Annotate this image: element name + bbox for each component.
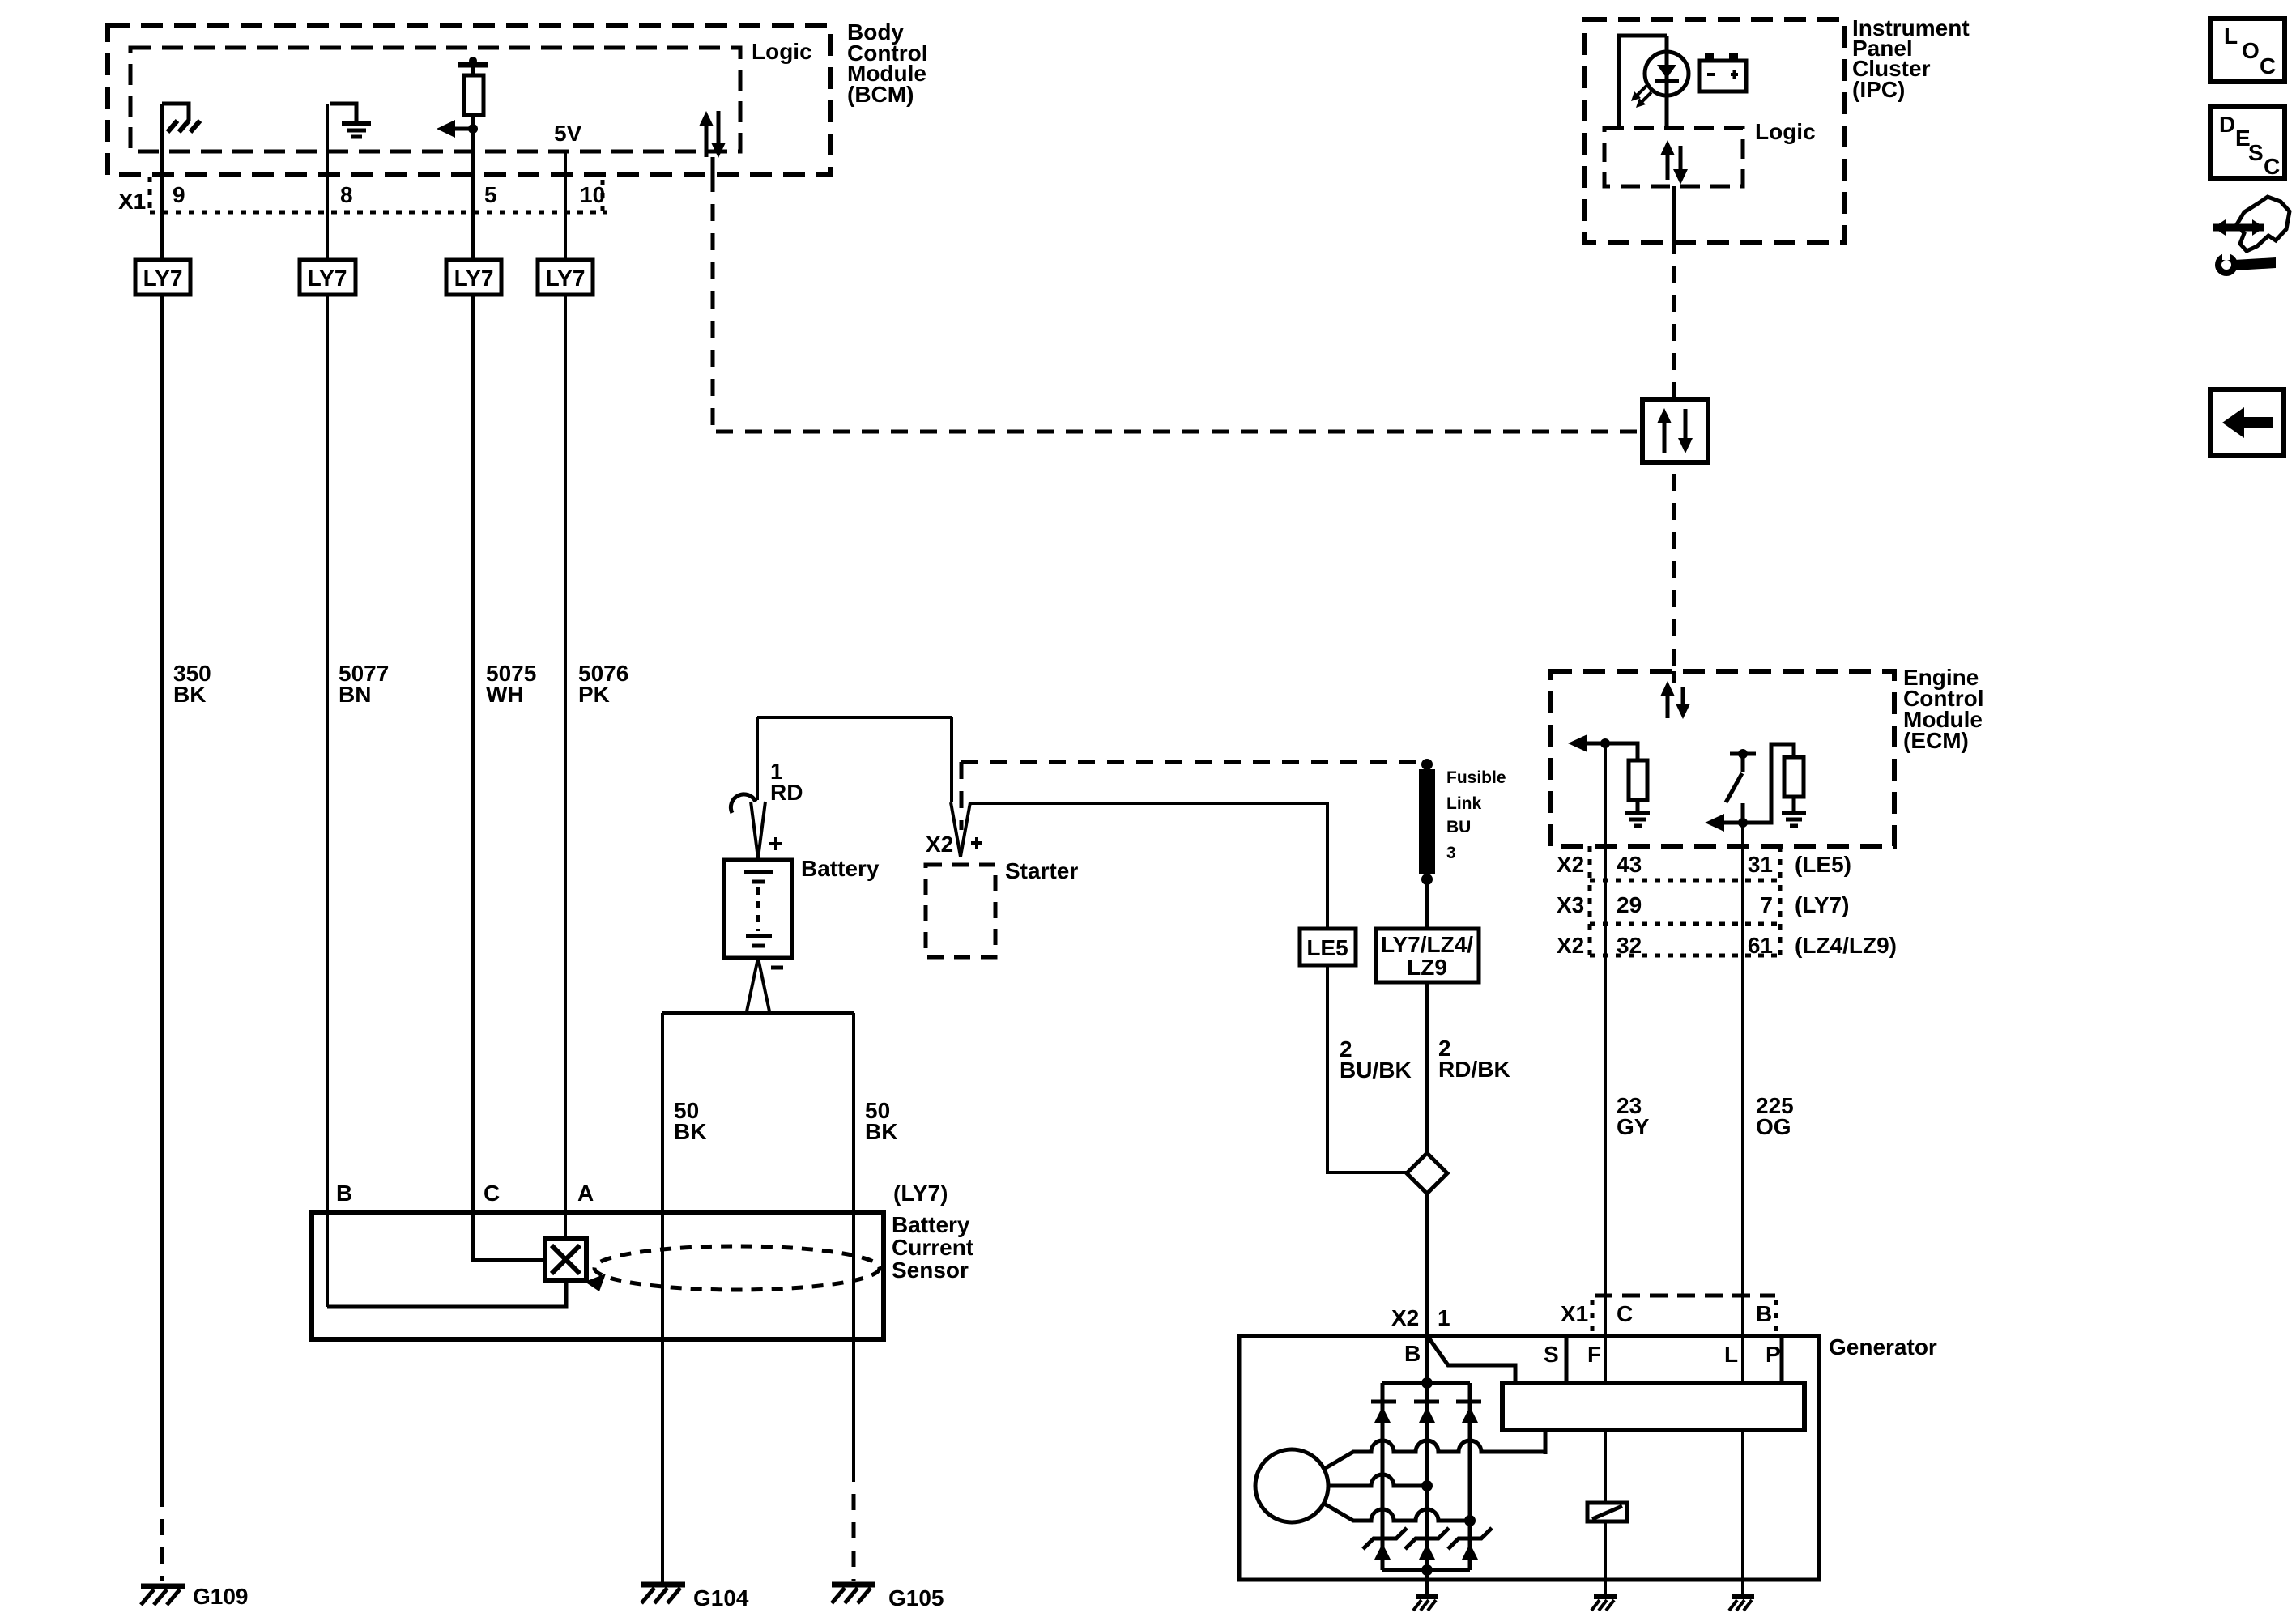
svg-text:(LZ4/LZ9): (LZ4/LZ9): [1795, 933, 1897, 958]
rectifier bridge left vertical: [1381, 1383, 1385, 1570]
node dot ECM command: [1738, 818, 1748, 828]
label BCM: [847, 19, 928, 107]
ground generator L: [1729, 1597, 1754, 1611]
svg-text:29: 29: [1617, 892, 1642, 917]
data arrows up-down inside BCM: [699, 111, 726, 158]
wire generator B to ground: [1425, 1570, 1429, 1597]
battery positive crimp taper: [751, 802, 765, 858]
ground earth ECM left: [1625, 813, 1650, 826]
wire LED loop: [1619, 36, 1667, 128]
svg-text:Sensor: Sensor: [892, 1257, 969, 1283]
battery telltale icon: [1699, 53, 1746, 91]
label IPC: [1852, 15, 1970, 102]
svg-text:C: C: [2264, 154, 2280, 179]
generator box: [1239, 1336, 1819, 1580]
svg-text:X3: X3: [1557, 892, 1584, 917]
label 2 BU/BK: [1340, 1036, 1412, 1083]
regulator leg to stator: [1544, 1430, 1548, 1454]
svg-text:X2: X2: [1557, 852, 1584, 877]
svg-text:1: 1: [1438, 1305, 1450, 1330]
starter crimp taper: [951, 802, 970, 857]
svg-text:Battery: Battery: [892, 1212, 970, 1237]
battery clamp hook: [731, 794, 756, 813]
battery negative crimp taper: [747, 958, 769, 1011]
svg-text:Fusible: Fusible: [1446, 768, 1506, 787]
svg-text:43: 43: [1617, 852, 1642, 877]
node dot phase 2: [1421, 1480, 1433, 1491]
svg-text:LY7/LZ4/: LY7/LZ4/: [1381, 932, 1473, 957]
resistor inside BCM: [464, 75, 483, 115]
plus sign starter: [971, 837, 982, 849]
wire diamond to generator B: [1425, 1194, 1429, 1336]
plus sign battery: [769, 837, 782, 850]
svg-text:Link: Link: [1446, 794, 1481, 813]
generator B internal diagonal link: [1429, 1338, 1515, 1383]
svg-text:A: A: [577, 1181, 594, 1206]
wire starter to LE5 run: [969, 803, 1327, 929]
svg-text:(IPC): (IPC): [1852, 77, 1905, 102]
svg-text:(ECM): (ECM): [1903, 728, 1969, 753]
connector X1 row of BCM dotted: [150, 177, 607, 212]
wire generator F lower: [1604, 1430, 1607, 1503]
svg-text:5: 5: [484, 182, 497, 207]
svg-text:8: 8: [340, 182, 353, 207]
connector LE5 box: [1300, 929, 1356, 965]
svg-text:G104: G104: [693, 1585, 749, 1611]
wire 50 BK right dashed lower: [852, 1494, 856, 1581]
fusible link bottom dot: [1421, 874, 1433, 885]
connector LY7/LZ4/LZ9 box: [1376, 929, 1479, 982]
label wire 350 BK: [173, 661, 211, 707]
LED light arrow 2: [1636, 92, 1651, 108]
wire sensor internal B leg: [327, 1280, 566, 1307]
loop to ECM right resistor: [1743, 744, 1794, 823]
fusible link BU 3 body: [1419, 769, 1435, 874]
icon box DESC: [2210, 106, 2285, 179]
svg-text:Battery: Battery: [801, 856, 880, 881]
wire 5076 PK vertical (pin 10): [564, 151, 567, 1239]
switch blade ECM: [1726, 773, 1742, 802]
wire battery positive feed top run: [757, 716, 952, 719]
resistor ECM right: [1784, 757, 1804, 797]
wire below switch: [1741, 803, 1745, 823]
hall element box with X: [545, 1239, 586, 1280]
svg-text:P: P: [1766, 1342, 1781, 1367]
battery box: [724, 860, 792, 958]
svg-text:X2: X2: [1391, 1305, 1419, 1330]
stator winding phase 3: [1324, 1504, 1470, 1521]
wire serial data dashed horizontal to IPC node: [716, 430, 1642, 434]
resistor ECM left: [1629, 760, 1647, 800]
wire fusible link to engine connector: [1425, 884, 1429, 929]
svg-text:(LY7): (LY7): [1795, 892, 1849, 917]
field diode box: [1587, 1503, 1627, 1521]
ECM connector rows dotted grid: [1590, 846, 1780, 955]
lead right resistor to ground: [1792, 797, 1796, 811]
ground G109: [141, 1586, 185, 1605]
wire LED vertical: [1665, 36, 1669, 128]
svg-text:L: L: [2224, 23, 2238, 49]
data arrows up-down inside ECM: [1660, 681, 1690, 719]
wire IPC data stub: [1672, 186, 1676, 254]
signal arrow left inside BCM: [437, 120, 473, 138]
LED indicator: [1645, 52, 1689, 96]
ground earth inside BCM (wire 8): [342, 124, 371, 137]
ground chassis inside BCM (left): [168, 121, 200, 132]
svg-text:X2: X2: [926, 832, 953, 857]
svg-text:LY7: LY7: [546, 266, 586, 291]
svg-text:Logic: Logic: [752, 39, 812, 64]
serial data node box with arrows: [1642, 399, 1708, 462]
svg-text:WH: WH: [486, 682, 524, 707]
node dot on pin 5 wire: [468, 124, 478, 134]
svg-text:F: F: [1587, 1342, 1601, 1367]
icon box back arrow: [2210, 389, 2284, 456]
label 50 BK left: [674, 1098, 706, 1144]
wire 225 OG full: [1741, 823, 1744, 1383]
svg-text:B: B: [336, 1181, 352, 1206]
wire 5075 WH vertical (pin 5): [473, 115, 543, 1260]
zener lower right: [1448, 1528, 1492, 1560]
logic box inside BCM dashed: [130, 48, 740, 151]
svg-text:RD/BK: RD/BK: [1438, 1057, 1510, 1082]
label wire 5076 PK: [578, 661, 628, 707]
label ECM: [1903, 665, 1984, 753]
svg-text:7: 7: [1760, 892, 1773, 917]
wire ECM data stub: [1672, 671, 1676, 683]
label Battery Current Sensor: [892, 1212, 973, 1283]
signal arrow left ECM sense: [1568, 734, 1605, 752]
battery current sensor box: [312, 1212, 884, 1339]
svg-text:BK: BK: [865, 1119, 897, 1144]
svg-text:PK: PK: [578, 682, 610, 707]
ground generator F: [1591, 1597, 1617, 1611]
data arrows up-down inside IPC logic: [1660, 140, 1688, 185]
diode upper mid: [1414, 1402, 1439, 1423]
wire 23 GY full: [1604, 743, 1607, 1383]
diode upper right: [1456, 1402, 1481, 1423]
lead to ECM pullup resistor: [1605, 743, 1638, 760]
svg-text:B: B: [1404, 1341, 1421, 1366]
ground earth ECM right: [1782, 813, 1806, 826]
wire starter feed vertical: [950, 717, 953, 802]
node dot bottom rail: [1421, 1564, 1433, 1576]
generator connector X1 row dashed line: [1595, 1294, 1775, 1298]
module box IPC dashed outline: [1585, 19, 1844, 243]
wire 5077 BN vertical (pin 8): [326, 104, 329, 1307]
terminal divider P right: [1780, 1336, 1784, 1383]
rectifier bottom rail: [1382, 1568, 1470, 1572]
svg-text:S: S: [1544, 1342, 1559, 1367]
wire dashed branch to fusible link corner: [961, 762, 1422, 830]
stator winding phase 2: [1328, 1474, 1427, 1486]
voltage supply tap on BCM pin 5 wire: [458, 57, 488, 75]
stator circle: [1255, 1449, 1328, 1522]
signal arrow left ECM command: [1705, 814, 1743, 832]
wire battery positive vertical: [756, 717, 759, 800]
svg-text:(BCM): (BCM): [847, 82, 914, 107]
icon box LOC: [2210, 19, 2285, 82]
wire IPC data dashed to node box: [1672, 266, 1676, 399]
connector LY7 box wire 5: [446, 260, 501, 295]
ground generator B: [1413, 1597, 1438, 1611]
wire 2 RD/BK: [1425, 982, 1429, 1153]
label 225 OG: [1756, 1093, 1794, 1139]
svg-text:D: D: [2219, 112, 2235, 137]
svg-text:61: 61: [1748, 933, 1773, 958]
svg-text:BN: BN: [339, 682, 371, 707]
label wire 1 RD: [770, 759, 803, 805]
label wire 5077 BN: [339, 661, 389, 707]
logic box inside IPC dashed: [1604, 128, 1743, 186]
minus sign battery: [771, 966, 783, 970]
svg-text:OG: OG: [1756, 1114, 1791, 1139]
svg-text:3: 3: [1446, 844, 1456, 862]
wire 50 BK left: [661, 1013, 664, 1583]
svg-text:B: B: [1756, 1301, 1772, 1326]
voltage regulator bar: [1502, 1383, 1804, 1430]
zener lower left: [1363, 1528, 1407, 1560]
svg-text:31: 31: [1748, 852, 1773, 877]
node dot ECM sense: [1600, 738, 1610, 748]
node dot top rail: [1421, 1377, 1433, 1389]
wire BCM pin 8 hook: [330, 104, 356, 122]
module box BCM (Body Control Module) dashed outline: [108, 26, 830, 175]
switch pivot bar ECM: [1730, 749, 1756, 772]
rectifier bridge right vertical: [1468, 1383, 1472, 1570]
svg-text:Current: Current: [892, 1235, 973, 1260]
svg-text:G109: G109: [193, 1584, 249, 1609]
ground G104: [641, 1585, 685, 1603]
wire serial data dashed vertical from BCM: [711, 175, 715, 432]
connector LY7 box wire 10: [538, 260, 593, 295]
wire 50 BK right: [852, 1013, 855, 1482]
icon harness wrench: [2213, 197, 2290, 273]
svg-text:9: 9: [173, 182, 185, 207]
svg-text:LY7: LY7: [143, 266, 183, 291]
terminal divider S-F: [1565, 1336, 1569, 1383]
svg-text:C: C: [483, 1181, 500, 1206]
LED light arrow 1: [1631, 86, 1646, 101]
label 50 BK right: [865, 1098, 897, 1144]
svg-text:BU/BK: BU/BK: [1340, 1057, 1412, 1083]
wire generator B internal vertical: [1425, 1336, 1429, 1570]
svg-text:G105: G105: [888, 1585, 944, 1611]
battery cell plates: [744, 872, 773, 946]
svg-text:S: S: [2248, 140, 2264, 165]
splice diamond: [1407, 1153, 1447, 1194]
fusible link top dot: [1421, 759, 1433, 770]
module box ECM dashed outline: [1550, 671, 1894, 846]
svg-text:LY7: LY7: [308, 266, 347, 291]
svg-text:LE5: LE5: [1306, 935, 1348, 960]
label 2 RD/BK: [1438, 1036, 1510, 1082]
svg-text:BK: BK: [173, 682, 206, 707]
wire 2 BU/BK: [1327, 965, 1407, 1172]
stator winding phase 1: [1324, 1440, 1545, 1469]
svg-text:(LE5): (LE5): [1795, 852, 1851, 877]
svg-text:BU: BU: [1446, 818, 1471, 836]
wire 350 BK dashed lower section: [160, 1519, 164, 1581]
svg-text:Starter: Starter: [1005, 858, 1078, 883]
wire field diode to ground: [1604, 1521, 1607, 1597]
svg-text:LY7: LY7: [454, 266, 494, 291]
generator connector X1 dotted separator left: [1591, 1300, 1595, 1332]
svg-text:GY: GY: [1617, 1114, 1650, 1139]
label 23 GY: [1617, 1093, 1650, 1139]
wire battery negative bus: [662, 1011, 854, 1015]
wire generator L lower: [1741, 1430, 1744, 1597]
generator connector dotted separator right: [1774, 1300, 1778, 1332]
svg-text:32: 32: [1617, 933, 1642, 958]
label wire 5075 WH: [486, 661, 536, 707]
wire serial data stub below arrows: [711, 157, 715, 175]
svg-text:Generator: Generator: [1829, 1334, 1937, 1360]
svg-text:10: 10: [580, 182, 605, 207]
svg-text:C: C: [1617, 1301, 1633, 1326]
svg-text:X1: X1: [1561, 1301, 1588, 1326]
svg-text:X2: X2: [1557, 933, 1584, 958]
lead resistor to ground: [1636, 800, 1640, 811]
node dot phase 3: [1464, 1515, 1476, 1526]
zener lower mid: [1405, 1528, 1449, 1560]
svg-text:(LY7): (LY7): [893, 1181, 948, 1206]
svg-text:Logic: Logic: [1755, 119, 1816, 144]
svg-text:L: L: [1724, 1342, 1738, 1367]
svg-text:O: O: [2242, 38, 2260, 63]
svg-text:C: C: [2260, 53, 2276, 79]
ground G105: [832, 1585, 875, 1603]
wire BCM pin 9 hook: [162, 104, 189, 121]
diode upper left: [1371, 1402, 1396, 1423]
svg-text:5V: 5V: [554, 121, 582, 146]
label Fusible Link BU 3: [1446, 768, 1506, 862]
svg-text:BK: BK: [674, 1119, 706, 1144]
svg-text:LZ9: LZ9: [1407, 955, 1447, 980]
svg-text:X1: X1: [118, 189, 146, 214]
svg-text:RD: RD: [770, 780, 803, 805]
rectifier top rail: [1382, 1381, 1470, 1385]
wire serial data dashed to ECM: [1672, 474, 1676, 671]
sensor loop arrowhead: [585, 1274, 606, 1291]
connector LY7 box wire 8: [300, 260, 356, 295]
starter box dashed: [926, 865, 995, 957]
wire 350 BK vertical (pin 9): [160, 104, 164, 1507]
sensor loop dashed ellipse: [594, 1246, 880, 1290]
connector LY7 box wire 9: [135, 260, 190, 295]
